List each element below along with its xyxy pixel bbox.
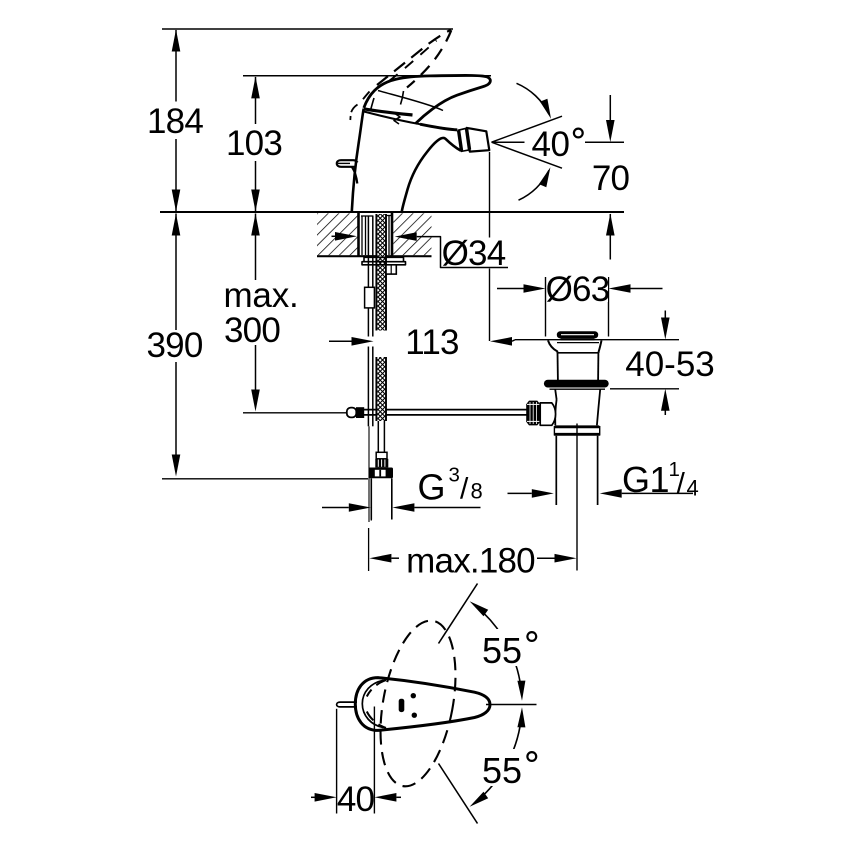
bottom view handle outline bbox=[355, 678, 490, 731]
waste lower body bbox=[555, 389, 556, 399]
faucet body outline bbox=[352, 109, 364, 212]
bottom view pull rod bbox=[337, 702, 357, 707]
55deg lower label bbox=[480, 749, 541, 786]
svg-text:55: 55 bbox=[482, 630, 522, 671]
svg-text:40: 40 bbox=[337, 780, 375, 819]
svg-text:max.: max. bbox=[223, 276, 298, 315]
actuator rod block bbox=[356, 407, 364, 418]
svg-text:Ø34: Ø34 bbox=[442, 234, 506, 273]
hose lower tube bbox=[377, 421, 379, 452]
mounting stud bbox=[367, 216, 369, 337]
dimension 40 bottom view bbox=[336, 709, 338, 814]
waste adjuster knurled knob bbox=[526, 401, 540, 426]
dimension 40-53 line bbox=[664, 311, 666, 319]
aerator vertical reference line bbox=[489, 152, 491, 238]
dimension O63 line bbox=[497, 288, 540, 290]
dimension 390 line bbox=[175, 214, 177, 331]
40-53 bottom reference line bbox=[610, 388, 679, 390]
dimension 113 line bbox=[329, 340, 352, 342]
dimension 184 line bbox=[175, 30, 177, 102]
dimension G3/8 bbox=[370, 500, 372, 521]
aerator connector ring bbox=[458, 128, 470, 151]
in-deck shank lines bbox=[361, 216, 363, 255]
actuator horizontal rod bbox=[243, 412, 347, 414]
svg-text:G: G bbox=[418, 467, 446, 508]
55deg upper boundary line bbox=[439, 584, 478, 644]
svg-text:max.180: max.180 bbox=[406, 542, 535, 581]
deck hole right edge bbox=[391, 212, 394, 256]
waste tailpipe bbox=[555, 436, 557, 505]
locking nut under washer bbox=[386, 265, 396, 274]
svg-text:103: 103 bbox=[226, 124, 282, 163]
drain pull knob bbox=[337, 160, 358, 167]
spray fan centerline bbox=[492, 141, 525, 143]
waste centerline bbox=[576, 424, 578, 571]
390 bottom reference line bbox=[162, 478, 368, 480]
upper 40deg arc arrow bbox=[517, 83, 550, 114]
hot cold dots bbox=[411, 693, 416, 698]
bottom view handle inner arc bbox=[362, 680, 383, 727]
flexible hose braided bbox=[377, 214, 385, 257]
stud nut bbox=[365, 287, 375, 308]
svg-text:390: 390 bbox=[147, 326, 203, 365]
handle lever solid bbox=[364, 75, 491, 123]
waste adjuster housing bbox=[540, 403, 555, 425]
svg-text:40-53: 40-53 bbox=[625, 345, 715, 384]
dimension 70 line lower bbox=[609, 214, 611, 260]
handle inner style line bbox=[378, 91, 443, 111]
113 to 40-53 shared reference line bbox=[515, 339, 679, 341]
bottom view centerline bbox=[486, 704, 537, 706]
dimension O34 right arrow and leader bbox=[395, 232, 417, 241]
deck top line bbox=[160, 211, 624, 213]
svg-text:184: 184 bbox=[147, 102, 203, 141]
body collar and spout neck top edge bbox=[364, 112, 457, 130]
hose walls bbox=[375, 214, 377, 331]
hose fitting nut bbox=[375, 459, 388, 468]
waste plug cap bbox=[557, 331, 598, 338]
O63 extension lines bbox=[545, 277, 547, 337]
svg-text:3: 3 bbox=[449, 464, 460, 487]
deck hole left edge bbox=[357, 212, 360, 256]
svg-text:/: / bbox=[677, 468, 686, 501]
stud lower extension line bbox=[368, 426, 370, 522]
O63 label bbox=[548, 276, 608, 302]
lower 40deg arc arrow bbox=[519, 170, 550, 200]
svg-text:Ø63: Ø63 bbox=[546, 270, 610, 309]
55deg lower boundary line bbox=[439, 764, 478, 824]
waste upper body bbox=[557, 353, 559, 380]
motion arc ticks bbox=[401, 91, 404, 105]
deck hatching left bbox=[317, 213, 358, 255]
washer under deck bbox=[364, 257, 404, 261]
actuator rod ball end bbox=[347, 408, 357, 418]
svg-text:8: 8 bbox=[471, 479, 483, 504]
55deg upper label bbox=[480, 629, 541, 666]
extension line handle top (103 ref) bbox=[243, 75, 491, 77]
spray fan upper line bbox=[492, 116, 563, 142]
svg-text:4: 4 bbox=[687, 476, 699, 501]
dimension O34 left arrow bbox=[332, 235, 337, 237]
dimension 70 line upper bbox=[609, 95, 611, 122]
hose end cap G3/8 bbox=[369, 468, 394, 479]
svg-text:70: 70 bbox=[592, 159, 630, 198]
dimension G1 1/4 bbox=[508, 492, 532, 494]
waste coupling ring bbox=[555, 425, 600, 428]
G3/8 connection tube bbox=[370, 478, 372, 519]
svg-text:/: / bbox=[460, 473, 469, 506]
svg-text:55: 55 bbox=[482, 750, 522, 791]
cartridge mark bbox=[399, 699, 405, 712]
svg-text:300: 300 bbox=[224, 311, 280, 350]
waste O-ring seal bbox=[544, 380, 609, 388]
svg-text:113: 113 bbox=[405, 323, 458, 362]
handle swing dashed ellipse bbox=[368, 615, 467, 793]
dimension 103 line bbox=[255, 77, 257, 124]
aerator body bbox=[467, 128, 490, 152]
svg-text:40: 40 bbox=[532, 125, 570, 164]
hose fitting block bbox=[376, 452, 387, 459]
handle-body joint groove bbox=[364, 109, 413, 115]
deck bottom line bbox=[317, 255, 432, 257]
extension line top (184 ref) bbox=[162, 28, 453, 30]
spout neck underside and body right edge bbox=[402, 138, 461, 212]
spray fan lower line bbox=[492, 142, 563, 168]
swing pivot cap dashes bbox=[367, 680, 386, 697]
upper 55deg arc bbox=[476, 606, 522, 694]
dimension max180 bbox=[369, 554, 391, 563]
svg-text:G1: G1 bbox=[622, 459, 669, 500]
waste flange bbox=[548, 340, 557, 352]
dimension max300 line bbox=[255, 214, 257, 281]
lower 55deg arc bbox=[476, 714, 522, 802]
handle raised position dashed bbox=[377, 30, 451, 85]
deck hatching right bbox=[393, 213, 431, 255]
